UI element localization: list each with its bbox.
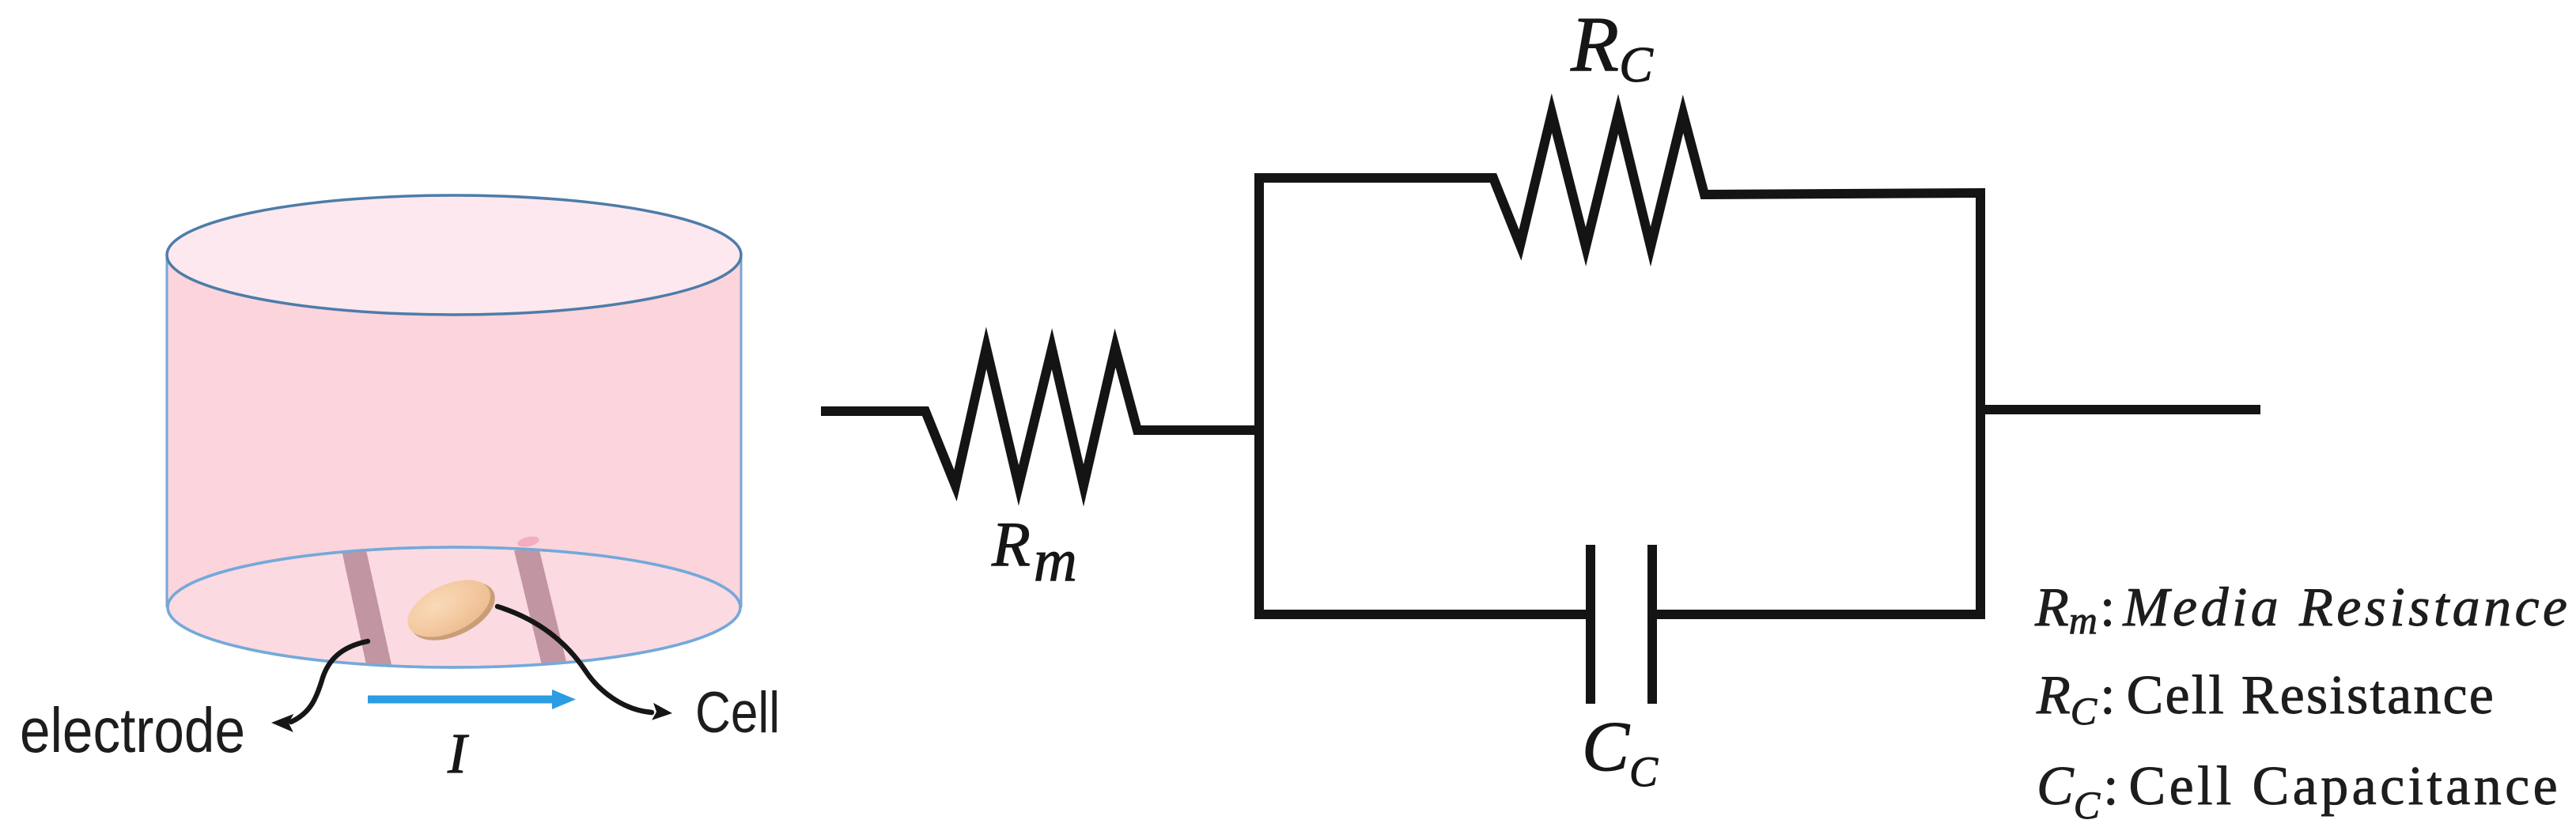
svg-text:Rm:Media Resistance: Rm:Media Resistance: [2034, 577, 2570, 642]
svg-text:CC: CC: [1582, 708, 1659, 795]
svg-text:RC: RC: [1570, 0, 1654, 93]
svg-text:RC:Cell Resistance: RC:Cell Resistance: [2036, 665, 2495, 733]
svg-text:Cell: Cell: [695, 681, 780, 745]
svg-text:CC:Cell Capacitance: CC:Cell Capacitance: [2037, 756, 2561, 827]
svg-text:Rm: Rm: [991, 510, 1077, 594]
svg-text:I: I: [447, 722, 469, 785]
svg-text:electrode: electrode: [20, 695, 245, 765]
